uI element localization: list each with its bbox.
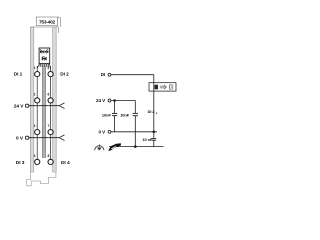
svg-text:7: 7 <box>48 124 50 128</box>
svg-text:DI: DI <box>101 72 106 77</box>
svg-text:10nF: 10nF <box>120 112 130 117</box>
svg-text:5: 5 <box>48 66 50 70</box>
svg-text:DI 2: DI 2 <box>148 109 156 114</box>
svg-text:10 nF: 10 nF <box>142 137 153 142</box>
svg-text:DI 4: DI 4 <box>61 160 70 166</box>
svg-text:24 V: 24 V <box>96 98 106 103</box>
svg-text:DI 3: DI 3 <box>16 160 25 166</box>
svg-text:10nF: 10nF <box>102 112 112 117</box>
svg-text:1: 1 <box>34 66 36 70</box>
svg-text:0 V: 0 V <box>98 129 106 134</box>
svg-text:4: 4 <box>34 154 36 158</box>
svg-text:24 V: 24 V <box>14 104 25 110</box>
svg-text:6: 6 <box>48 93 50 97</box>
svg-text:753-402: 753-402 <box>39 20 56 26</box>
svg-text:2: 2 <box>34 93 36 97</box>
svg-text:0 V: 0 V <box>16 136 24 142</box>
svg-text:DI 2: DI 2 <box>60 71 69 77</box>
svg-text:8: 8 <box>48 154 50 158</box>
svg-text:3: 3 <box>34 124 36 128</box>
svg-text:DI 1: DI 1 <box>14 71 23 77</box>
